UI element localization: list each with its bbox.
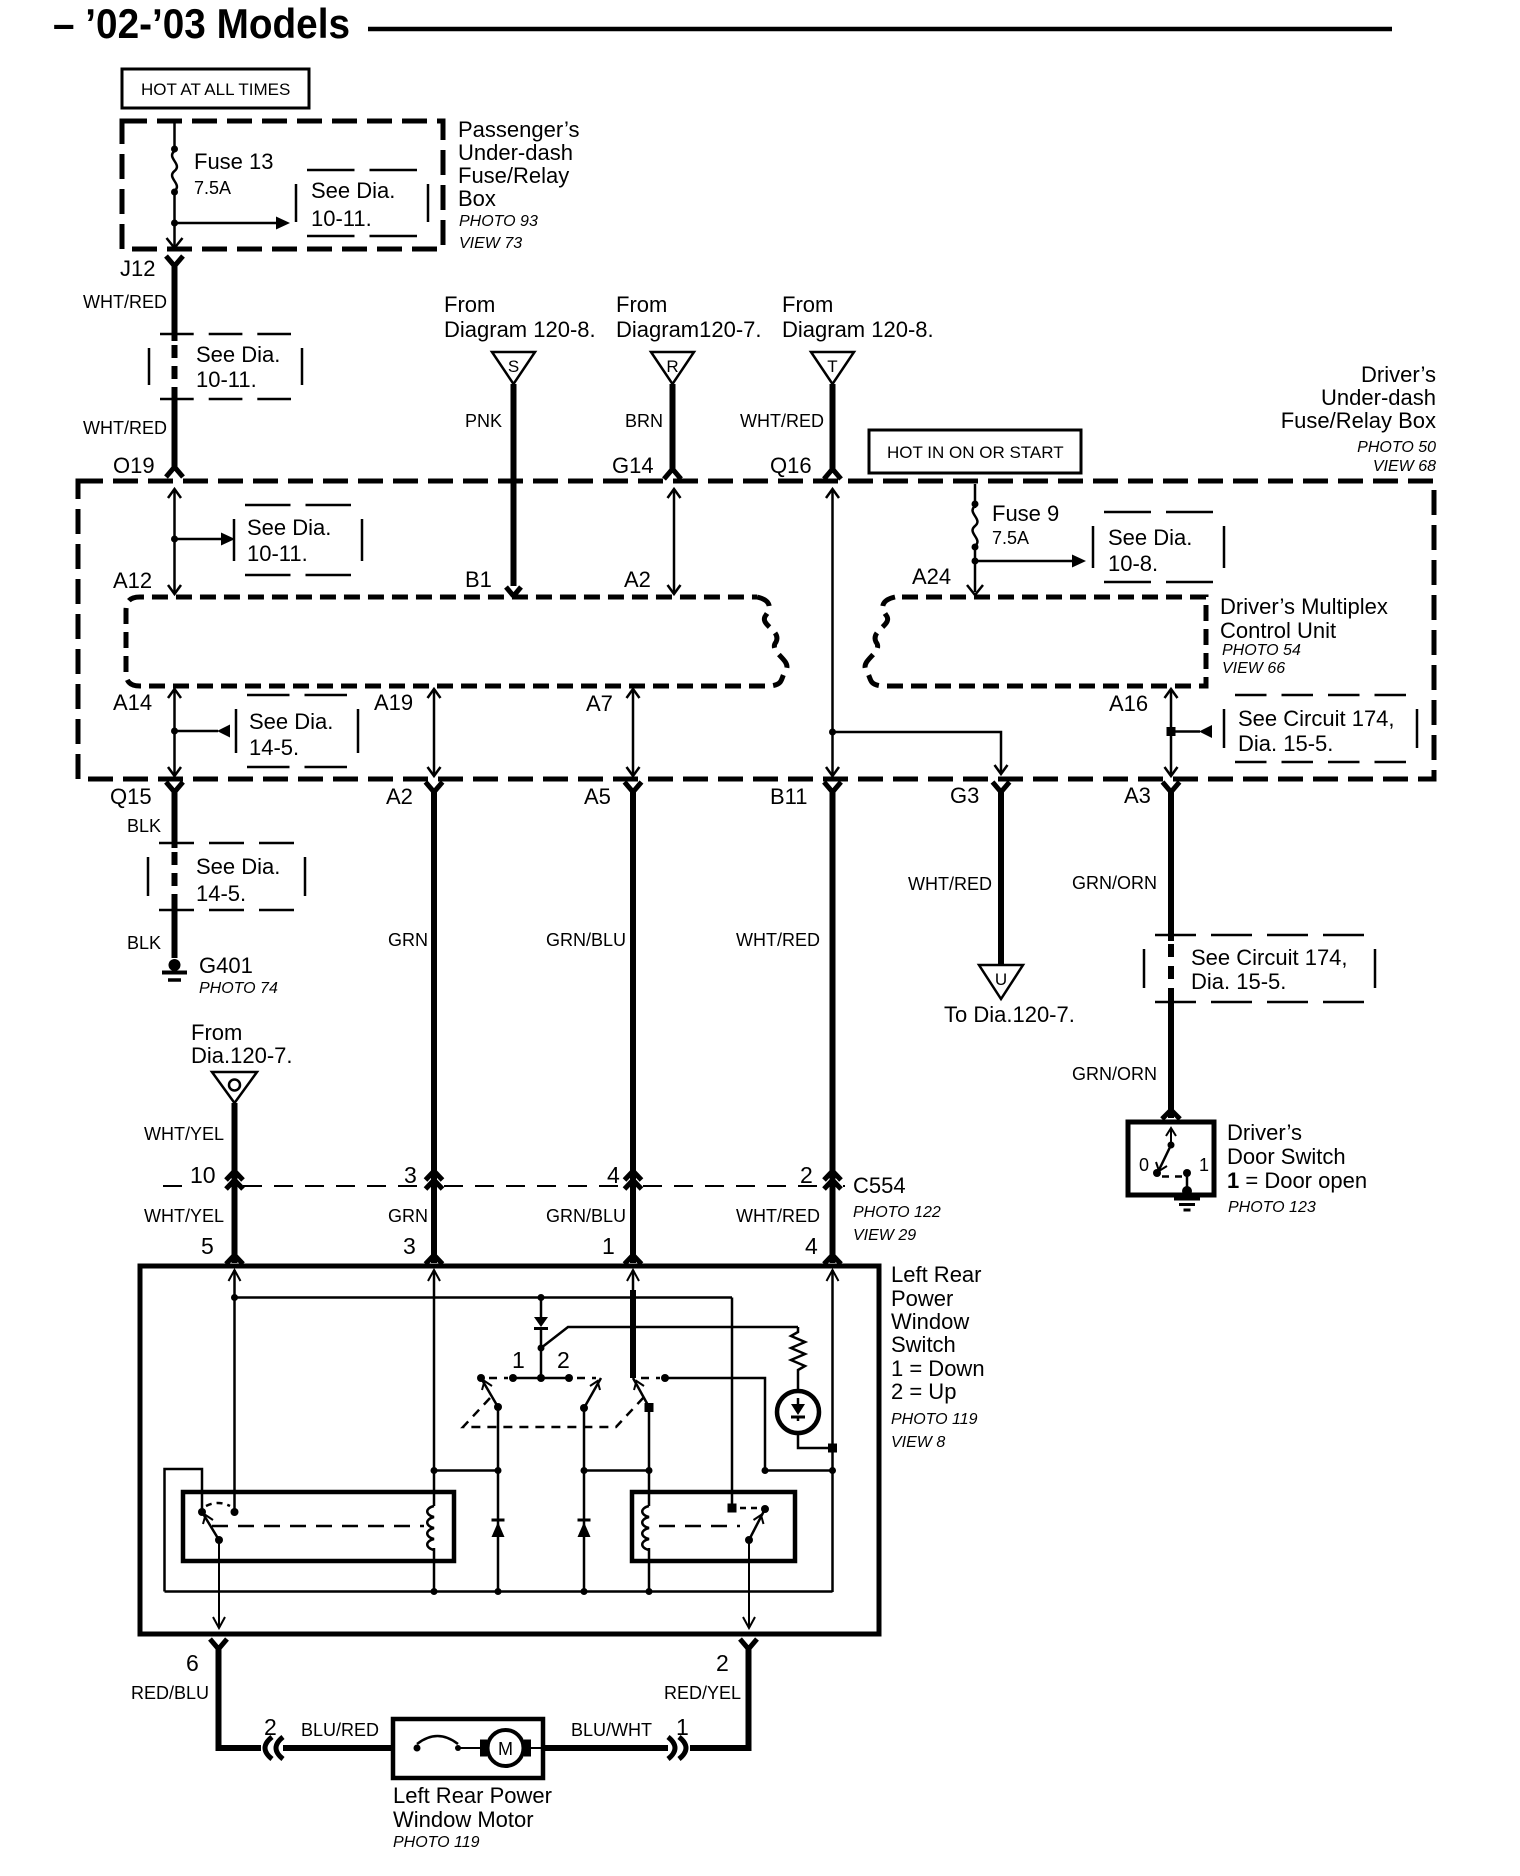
wire pin 5 entry arrow [229, 1270, 241, 1512]
wire branch to G3 [833, 732, 1008, 774]
svg-text:A19: A19 [374, 690, 413, 715]
LED D4 [777, 1391, 819, 1433]
junction B11 to G3 branch [829, 729, 836, 736]
svg-text:RED/YEL: RED/YEL [664, 1683, 741, 1703]
svg-text:Left Rear: Left Rear [891, 1262, 982, 1287]
See Dia. 14-5. reference box (Q15) [148, 843, 305, 910]
lever 2 [584, 1378, 601, 1408]
svg-text:2: 2 [716, 1650, 729, 1676]
wire WHT/YEL C554 to switch pin 5 [144, 1179, 243, 1264]
relay K2 (right) [632, 1492, 795, 1561]
svg-text:14-5.: 14-5. [196, 881, 246, 906]
wire rocker to right branch [665, 1378, 765, 1470]
svg-text:PHOTO 119: PHOTO 119 [393, 1834, 480, 1851]
fuse F13 (Fuse 13 7.5A) [171, 123, 274, 246]
svg-text:U: U [995, 970, 1007, 989]
svg-text:Passenger’s: Passenger’s [458, 117, 579, 142]
svg-text:BLU/WHT: BLU/WHT [571, 1720, 652, 1740]
relay K2 coil [642, 1506, 649, 1550]
svg-text:GRN/ORN: GRN/ORN [1072, 1064, 1157, 1084]
svg-text:T: T [827, 357, 837, 376]
svg-text:Box: Box [458, 186, 496, 211]
svg-text:Fuse/Relay: Fuse/Relay [458, 163, 569, 188]
wire pin A14 double arrow [113, 689, 181, 776]
svg-text:BLK: BLK [127, 816, 161, 836]
wire pin 6 output [213, 1540, 225, 1628]
node HOT AT ALL TIMES [122, 69, 309, 108]
wire pin B11 internal line [826, 489, 839, 776]
svg-text:Window Motor: Window Motor [393, 1807, 534, 1832]
svg-text:PHOTO 123: PHOTO 123 [1228, 1199, 1316, 1216]
svg-text:7.5A: 7.5A [194, 178, 231, 198]
node J12 connector Y [120, 256, 183, 281]
relay K2 dashed link [659, 1525, 740, 1528]
relay K1 coil [427, 1506, 434, 1550]
wire arrow to See Dia. 10-11. [175, 533, 236, 546]
svg-text:Driver’s: Driver’s [1361, 362, 1436, 387]
See Dia. 10-11. reference box (A12) [234, 505, 362, 575]
node HOT IN ON OR START [869, 430, 1081, 473]
diode D3 [578, 1520, 591, 1537]
svg-text:J12: J12 [120, 256, 155, 281]
svg-text:GRN/ORN: GRN/ORN [1072, 873, 1157, 893]
wire to right relay contact [731, 1298, 734, 1509]
wire feedback loop left [165, 1469, 203, 1592]
wire bottom rail [165, 1588, 833, 1595]
svg-text:VIEW 73: VIEW 73 [459, 235, 522, 252]
connector 1 (male) [668, 1714, 689, 1759]
wire WHT/RED J12 to O19 [83, 263, 175, 469]
svg-text:From: From [444, 292, 495, 317]
connector chevron at door switch [1162, 1110, 1180, 1119]
svg-text:A7: A7 [586, 691, 613, 716]
svg-text:See Dia.: See Dia. [196, 854, 280, 879]
svg-text:1: 1 [676, 1714, 689, 1740]
svg-text:1: 1 [1199, 1155, 1209, 1175]
node B1 connector Y at multiplex [465, 567, 521, 596]
svg-text:PHOTO 54: PHOTO 54 [1222, 642, 1301, 659]
connector C554 dashed line [163, 1173, 941, 1244]
svg-text:Under-dash: Under-dash [1321, 385, 1436, 410]
svg-text:A14: A14 [113, 690, 152, 715]
svg-text:O19: O19 [113, 453, 155, 478]
svg-text:3: 3 [403, 1233, 416, 1259]
svg-text:Diagram 120-8.: Diagram 120-8. [782, 317, 934, 342]
svg-text:5: 5 [201, 1233, 214, 1259]
svg-text:HOT AT ALL TIMES: HOT AT ALL TIMES [141, 80, 290, 99]
node Q15 connector Y [110, 782, 183, 809]
svg-text:Control Unit: Control Unit [1220, 618, 1336, 643]
Driver's Under-dash Fuse/Relay Box (big dashed box) [78, 481, 1434, 779]
svg-text:2: 2 [800, 1162, 813, 1188]
ground at door switch [1174, 1186, 1200, 1210]
svg-text:1 = Door open: 1 = Door open [1227, 1168, 1367, 1193]
Driver's Under-dash Fuse/Relay Box label [1281, 362, 1436, 475]
junction row pins3/5 [431, 1467, 502, 1474]
wire WHT/RED G3 to U [908, 790, 1001, 964]
svg-text:2: 2 [264, 1714, 277, 1740]
mechanical linkage dashed [463, 1397, 644, 1427]
svg-text:From: From [616, 292, 667, 317]
wire arrow to See Dia. 10-8. [975, 555, 1086, 568]
wire pin A16 double arrow [1109, 689, 1178, 776]
svg-text:Fuse/Relay Box: Fuse/Relay Box [1281, 408, 1436, 433]
wire coil K2 bottom [648, 1548, 651, 1592]
svg-text:PHOTO 50: PHOTO 50 [1357, 439, 1436, 456]
svg-text:See Dia.: See Dia. [196, 342, 280, 367]
junction on A16 wire (square) [1167, 727, 1176, 736]
wire pin A12 double arrow [113, 489, 181, 594]
See Dia. 10-11. reference box (on J12 wire) [149, 334, 302, 399]
svg-text:PHOTO 119: PHOTO 119 [891, 1411, 978, 1428]
wire pin A24 down-arrow [912, 564, 983, 595]
diode D1 [534, 1298, 548, 1379]
svg-text:PNK: PNK [465, 411, 502, 431]
svg-text:WHT/RED: WHT/RED [908, 874, 992, 894]
junction on fuse 9 output [972, 558, 979, 565]
svg-text:Dia. 15-5.: Dia. 15-5. [1238, 731, 1333, 756]
connector U to Dia. 120-7 [944, 965, 1075, 1027]
svg-text:WHT/RED: WHT/RED [740, 411, 824, 431]
pin 3 chevrons at C554 [404, 1162, 443, 1189]
svg-text:1 = Down: 1 = Down [891, 1356, 985, 1381]
svg-text:See Circuit 174,: See Circuit 174, [1191, 945, 1348, 970]
wire coil K1 bottom [433, 1548, 436, 1592]
wire WHT/RED C554 to switch pin 4 [736, 1179, 841, 1264]
svg-text:Diagram 120-8.: Diagram 120-8. [444, 317, 596, 342]
title '02-'03 Models [53, 0, 350, 47]
pin 4 chevrons at C554 [607, 1162, 642, 1189]
svg-text:G14: G14 [612, 453, 654, 478]
wire pin A7 double arrow [586, 689, 640, 776]
svg-text:GRN: GRN [388, 1206, 428, 1226]
svg-text:GRN: GRN [388, 930, 428, 950]
lever 3 [633, 1378, 649, 1407]
svg-text:10-11.: 10-11. [311, 206, 372, 231]
svg-text:See Dia.: See Dia. [247, 515, 331, 540]
wire down-arrow at box exit [167, 238, 183, 248]
pin 10 chevrons at C554 [190, 1162, 243, 1189]
svg-text:VIEW 8: VIEW 8 [891, 1434, 945, 1451]
wire GRN/BLU A5 to C554 pin 4 [546, 790, 633, 1187]
svg-text:4: 4 [607, 1162, 620, 1188]
svg-text:6: 6 [186, 1650, 199, 1676]
svg-text:WHT/RED: WHT/RED [736, 1206, 820, 1226]
svg-text:See Dia.: See Dia. [311, 178, 395, 203]
svg-text:3: 3 [404, 1162, 417, 1188]
svg-text:A5: A5 [584, 784, 611, 809]
svg-text:G3: G3 [950, 783, 979, 808]
svg-text:From: From [782, 292, 833, 317]
See Circuit 174, Dia. 15-5. reference box (A16) [1224, 695, 1417, 762]
wire BLU/WHT from motor [543, 1720, 668, 1748]
svg-text:A3: A3 [1124, 783, 1151, 808]
svg-text:Switch: Switch [891, 1332, 956, 1357]
fuse F9 (Fuse 9 7.5A) [972, 484, 1060, 592]
svg-text:Left Rear Power: Left Rear Power [393, 1783, 552, 1808]
Left Rear Power Window Switch box [140, 1266, 879, 1634]
svg-text:Q15: Q15 [110, 784, 152, 809]
node pin 2 connector Y [716, 1639, 757, 1676]
wire RED/BLU pin6 to motor [131, 1646, 261, 1748]
svg-text:See Dia.: See Dia. [1108, 525, 1192, 550]
wire GRN/ORN A3 to door switch [1072, 790, 1171, 1118]
svg-text:Diagram120-7.: Diagram120-7. [616, 317, 762, 342]
svg-text:0: 0 [1139, 1155, 1149, 1175]
junction LED to pin4 (square) [828, 1444, 837, 1453]
wire GRN A2 to C554 pin 3 [388, 790, 434, 1187]
svg-text:A2: A2 [386, 784, 413, 809]
svg-text:A2: A2 [624, 567, 651, 592]
svg-text:GRN/BLU: GRN/BLU [546, 1206, 626, 1226]
svg-text:PHOTO 122: PHOTO 122 [853, 1204, 941, 1221]
svg-text:4: 4 [805, 1233, 818, 1259]
svg-text:S: S [508, 357, 519, 376]
wire GRN C554 to switch pin 3 [388, 1179, 443, 1264]
junction on A14 wire [171, 728, 178, 735]
junction on A12 wire [171, 536, 178, 543]
wire BLU/RED to motor [283, 1720, 395, 1748]
svg-text:B1: B1 [465, 567, 492, 592]
diode D2 [492, 1520, 505, 1537]
node A5 connector Y [584, 782, 642, 809]
node A3 connector Y [1124, 782, 1180, 808]
svg-text:VIEW 66: VIEW 66 [1222, 660, 1285, 677]
svg-text:VIEW 29: VIEW 29 [853, 1227, 916, 1244]
svg-text:R: R [666, 357, 678, 376]
Driver's Door Switch [1128, 1122, 1214, 1195]
svg-text:10-11.: 10-11. [247, 541, 308, 566]
svg-text:2 = Up: 2 = Up [891, 1379, 956, 1404]
svg-text:Dia.120-7.: Dia.120-7. [191, 1043, 293, 1068]
svg-text:1: 1 [512, 1347, 525, 1373]
connector S from Diagram 120-8 [444, 292, 596, 384]
svg-text:B11: B11 [770, 784, 808, 809]
See Dia. 10-11. reference box (in passenger box) [296, 170, 428, 236]
svg-text:Window: Window [891, 1309, 969, 1334]
svg-text:G401: G401 [199, 953, 253, 978]
connector O from Dia. 120-7 [191, 1020, 293, 1103]
junction row levers 2-3 [581, 1467, 653, 1474]
svg-text:Fuse 9: Fuse 9 [992, 501, 1059, 526]
svg-text:10-11.: 10-11. [196, 367, 257, 392]
Driver's Multiplex Control Unit (left section, dashed) [126, 597, 787, 686]
connector T from Diagram 120-8 [782, 292, 934, 384]
rocker switch assembly [463, 1347, 669, 1427]
wire BRN R to G14 [625, 384, 673, 470]
junction below D1 [538, 1345, 545, 1352]
wire RED/YEL motor to pin 2 [664, 1646, 749, 1748]
pin 2 chevrons at C554 [800, 1162, 841, 1189]
svg-text:M: M [498, 1739, 513, 1759]
relay K1 dashed link [212, 1525, 424, 1528]
svg-text:WHT/RED: WHT/RED [736, 930, 820, 950]
relay K1 contact [198, 1508, 206, 1516]
svg-text:BLK: BLK [127, 933, 161, 953]
wire WHT/RED T to Q16 [740, 384, 833, 470]
node G14 connector Y [612, 453, 681, 479]
node A2 connector Y [386, 782, 443, 809]
svg-text:14-5.: 14-5. [249, 735, 299, 760]
See Circuit 174, Dia. 15-5. reference box (A3) [1144, 935, 1375, 1002]
svg-text:PHOTO 93: PHOTO 93 [459, 213, 538, 230]
svg-text:From: From [191, 1020, 242, 1045]
wire pin A19 double arrow [374, 689, 441, 776]
svg-text:HOT IN ON OR START: HOT IN ON OR START [887, 443, 1064, 462]
motor M1 Left Rear Power Window Motor [393, 1719, 543, 1778]
svg-text:A24: A24 [912, 564, 951, 589]
svg-text:GRN/BLU: GRN/BLU [546, 930, 626, 950]
svg-text:See Dia.: See Dia. [249, 709, 333, 734]
wire lever3 drop [648, 1407, 651, 1506]
lever 1 [481, 1378, 498, 1407]
wire lever2 drop [583, 1408, 586, 1592]
motor label [393, 1783, 552, 1851]
svg-text:See Circuit 174,: See Circuit 174, [1238, 706, 1395, 731]
wire top rail [231, 1294, 732, 1301]
wire top rule [368, 27, 1392, 32]
svg-text:1: 1 [602, 1233, 615, 1259]
wire lever1 drop [497, 1407, 500, 1592]
node Q16 connector Y [770, 453, 841, 479]
wire WHT/YEL O to C554 pin 10 [144, 1103, 235, 1187]
svg-text:WHT/RED: WHT/RED [83, 418, 167, 438]
svg-text:C554: C554 [853, 1173, 906, 1198]
wire pin 4 entry arrow [827, 1270, 839, 1592]
wire pin A2 double arrow [624, 489, 681, 594]
wire LED to pin4 column [798, 1433, 828, 1448]
svg-text:10-8.: 10-8. [1108, 551, 1158, 576]
wire with back-arrow (See Circuit 174) [1171, 725, 1212, 738]
svg-text:Driver’s Multiplex: Driver’s Multiplex [1220, 594, 1388, 619]
resistor R1 [791, 1327, 805, 1391]
Driver's Door Switch label [1227, 1120, 1367, 1216]
junction row right branch to pin4 [762, 1467, 837, 1474]
pole contacts row [477, 1374, 485, 1382]
svg-text:BRN: BRN [625, 411, 663, 431]
svg-text:Door Switch: Door Switch [1227, 1144, 1346, 1169]
svg-text:BLU/RED: BLU/RED [301, 1720, 379, 1740]
relay K2 contact [728, 1504, 737, 1513]
svg-text:WHT/RED: WHT/RED [83, 292, 167, 312]
wire PNK S to B1 [465, 384, 514, 586]
svg-text:RED/BLU: RED/BLU [131, 1683, 209, 1703]
svg-text:7.5A: 7.5A [992, 528, 1029, 548]
wire arrow to See Dia. 10-11. [175, 217, 291, 230]
wire with back-arrow (See Dia. 14-5.) [175, 725, 231, 738]
svg-text:Fuse 13: Fuse 13 [194, 149, 274, 174]
wire GRN/BLU C554 to switch pin 1 [546, 1179, 642, 1264]
svg-text:Dia. 15-5.: Dia. 15-5. [1191, 969, 1286, 994]
svg-text:Q16: Q16 [770, 453, 812, 478]
svg-text:To Dia.120-7.: To Dia.120-7. [944, 1002, 1075, 1027]
connector R from Diagram 120-7 [616, 292, 762, 384]
svg-text:2: 2 [557, 1347, 570, 1373]
See Dia. 10-8. reference box [1093, 512, 1224, 582]
wire WHT/RED B11 to C554 pin 2 [736, 790, 833, 1187]
svg-text:WHT/YEL: WHT/YEL [144, 1206, 224, 1226]
wire pin 3 entry arrow [428, 1270, 440, 1506]
svg-text:10: 10 [190, 1162, 216, 1188]
Driver's Multiplex Control Unit (right section, dashed) [865, 597, 1206, 686]
svg-text:A16: A16 [1109, 691, 1148, 716]
Passenger's Under-dash Fuse/Relay Box (dashed) [122, 121, 443, 249]
node pin 6 connector Y [186, 1639, 227, 1676]
svg-text:PHOTO 74: PHOTO 74 [199, 980, 278, 997]
wire pin 1 entry arrow [627, 1270, 639, 1378]
svg-text:Driver’s: Driver’s [1227, 1120, 1302, 1145]
wire to LED rail [541, 1327, 798, 1348]
svg-text:Under-dash: Under-dash [458, 140, 573, 165]
relay K1 (left) [183, 1492, 454, 1561]
wire pin 2 output [743, 1540, 755, 1628]
ground G401 [162, 953, 278, 997]
node O19 connector Y [113, 453, 183, 478]
svg-text:A12: A12 [113, 568, 152, 593]
node G3 connector Y [950, 782, 1010, 808]
svg-text:VIEW 68: VIEW 68 [1373, 458, 1436, 475]
See Dia. 14-5. reference box (A14) [236, 695, 358, 767]
svg-text:Power: Power [891, 1286, 953, 1311]
junction on fuse 13 output [171, 220, 178, 227]
svg-text:WHT/YEL: WHT/YEL [144, 1124, 224, 1144]
connector 2 (female) [264, 1714, 283, 1759]
svg-text:– ’02-’03 Models: – ’02-’03 Models [53, 0, 350, 47]
node B11 connector Y [770, 782, 841, 809]
wire BLK Q15 to ground [127, 790, 175, 958]
